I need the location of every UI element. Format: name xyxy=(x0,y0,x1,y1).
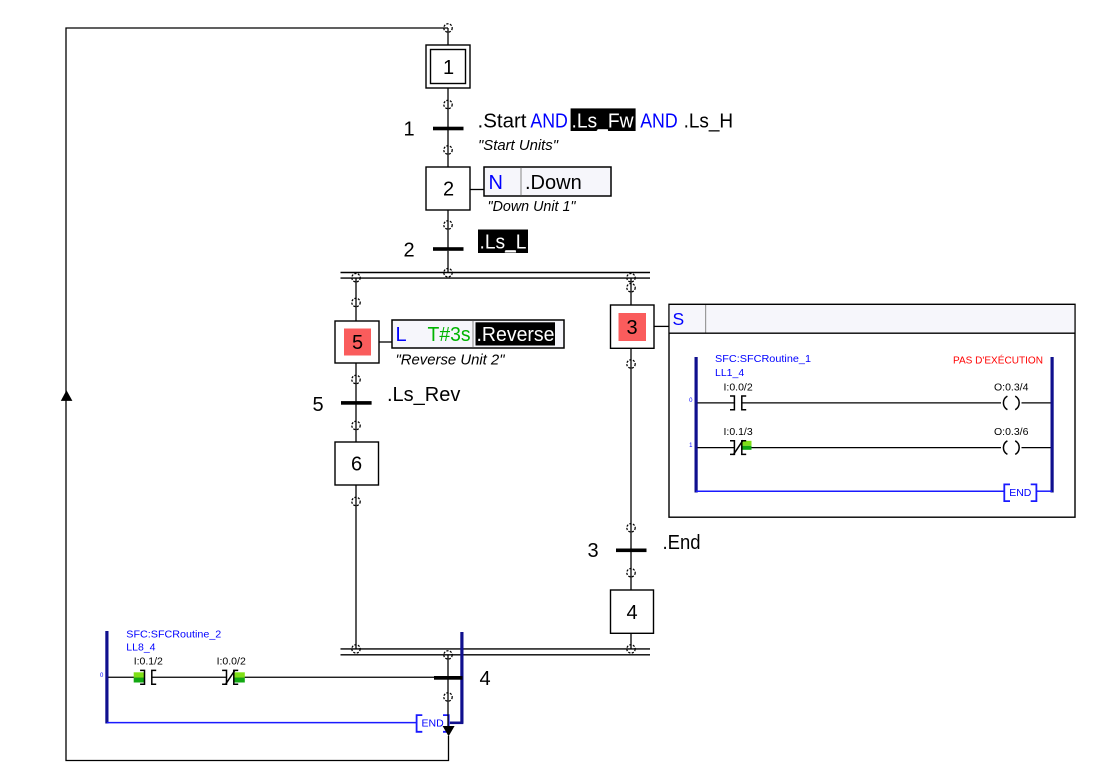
ladder1 right power rail xyxy=(1051,357,1054,493)
node above step 2 xyxy=(444,146,452,154)
svg-text:SFC:SFCRoutine_2: SFC:SFCRoutine_2 xyxy=(126,628,221,640)
transition T1 condition text xyxy=(478,108,734,132)
wire divergence to step3 xyxy=(630,278,632,305)
svg-text:2: 2 xyxy=(404,240,415,262)
svg-text:.Ls_Rev: .Ls_Rev xyxy=(387,384,460,406)
node convergence center xyxy=(444,651,452,659)
svg-text:6: 6 xyxy=(351,454,362,476)
ladder1 coil O:0.3/6 xyxy=(1003,441,1019,455)
svg-text:1: 1 xyxy=(443,57,454,79)
node above transition 1 xyxy=(444,100,452,108)
ladder1 coil O:0.3/4 xyxy=(1003,396,1019,410)
svg-text:"Start Units": "Start Units" xyxy=(478,137,559,154)
step S2 xyxy=(426,167,470,210)
wire step5 to transition5 xyxy=(355,363,357,402)
action block N .Down xyxy=(484,167,611,196)
svg-text:.Down: .Down xyxy=(525,172,582,194)
node below step 6 xyxy=(352,497,360,505)
svg-text:1: 1 xyxy=(404,119,415,141)
ladder1 left power rail xyxy=(695,357,698,493)
arrow down to loop return xyxy=(443,726,455,736)
wire transition4 down to arrow xyxy=(447,680,449,729)
wire loop-return left/top/bottom xyxy=(66,28,449,761)
action block S (ladder subroutine preview) xyxy=(669,304,1075,517)
wire step3 to transition3 xyxy=(630,349,632,549)
wire transition1 to step2 xyxy=(447,130,449,167)
node above step 6 xyxy=(352,421,360,429)
transition T4 bar xyxy=(434,676,463,680)
transition T3 bar xyxy=(616,549,647,553)
node divergence right xyxy=(627,274,635,282)
ladder1 rung 0 wire xyxy=(698,402,1051,404)
simultaneous convergence double lines xyxy=(341,649,651,655)
node at loop top xyxy=(444,24,452,32)
ladder1 END bracket xyxy=(1004,484,1036,501)
wire step6 to convergence xyxy=(355,485,357,649)
node above step 5 xyxy=(352,298,360,306)
svg-text:AND: AND xyxy=(640,111,678,133)
svg-text:5: 5 xyxy=(313,394,324,416)
wire step1 to transition1 xyxy=(447,88,449,127)
transition T2 condition .Ls_L highlighted xyxy=(478,230,528,254)
svg-text:END: END xyxy=(1009,487,1032,499)
transition T1 bar xyxy=(433,127,464,131)
ladder2 end rung wire xyxy=(107,722,463,724)
svg-text:5: 5 xyxy=(352,332,363,354)
svg-text:I:0.1/2: I:0.1/2 xyxy=(134,655,163,667)
svg-text:L: L xyxy=(396,324,407,346)
svg-text:2: 2 xyxy=(443,179,454,201)
wire transition2 to divergence xyxy=(447,251,449,273)
ladder2 contact I:0.1/2 highlight xyxy=(134,672,145,682)
ladder2 END bracket xyxy=(417,715,449,732)
svg-text:.Start: .Start xyxy=(478,111,527,133)
ladder1 contact I:0.1/3 highlight xyxy=(741,441,751,450)
wire step4 to convergence xyxy=(630,634,632,650)
svg-text:3: 3 xyxy=(588,540,599,562)
node divergence left xyxy=(352,274,360,282)
wire convergence to transition4 xyxy=(447,655,449,677)
node above transition 5 xyxy=(352,375,360,383)
node above step 4 xyxy=(627,569,635,577)
ladder2 left power rail xyxy=(105,631,108,724)
svg-text:T#3s: T#3s xyxy=(428,324,471,346)
node convergence right xyxy=(627,645,635,653)
svg-text:PAS D'EXÉCUTION: PAS D'EXÉCUTION xyxy=(953,354,1043,367)
node above transition 2 xyxy=(444,221,452,229)
svg-text:I:0.1/3: I:0.1/3 xyxy=(724,426,753,438)
step S1 (initial, double border) xyxy=(426,45,470,88)
ladder2 rung 0 wire xyxy=(108,676,460,678)
action block L T#3s .Reverse xyxy=(392,320,564,348)
svg-text:.Ls_L: .Ls_L xyxy=(480,232,527,254)
svg-text:AND: AND xyxy=(530,111,568,133)
svg-text:S: S xyxy=(673,309,685,329)
svg-text:3: 3 xyxy=(626,317,637,339)
svg-text:.Reverse: .Reverse xyxy=(477,324,555,346)
svg-text:SFC:SFCRoutine_1: SFC:SFCRoutine_1 xyxy=(715,353,811,365)
svg-text:.End: .End xyxy=(663,532,701,554)
wire transition3 to step4 xyxy=(630,552,632,590)
ladder1 contact I:0.1/3 (NC) xyxy=(730,440,746,455)
ladder2 contact I:0.1/2 (NO) xyxy=(140,670,156,684)
connector step5 to action block xyxy=(379,341,392,343)
svg-text:N: N xyxy=(489,172,503,194)
step S4 xyxy=(611,590,654,633)
transition T2 bar xyxy=(433,247,464,251)
ladder1 rung 1 wire xyxy=(698,447,1051,449)
svg-text:0: 0 xyxy=(100,673,104,679)
node divergence center xyxy=(444,269,452,277)
svg-text:I:0.0/2: I:0.0/2 xyxy=(217,655,246,667)
svg-text:"Reverse Unit 2": "Reverse Unit 2" xyxy=(396,352,506,369)
svg-text:O:0.3/6: O:0.3/6 xyxy=(994,426,1029,438)
connector step2 to action block xyxy=(470,189,484,191)
node below transition 4 xyxy=(444,693,452,701)
node above step 3 xyxy=(627,284,635,292)
node below step 3 xyxy=(627,360,635,368)
connector step3 to S action block xyxy=(654,325,669,327)
svg-text:I:0.0/2: I:0.0/2 xyxy=(724,381,753,393)
simultaneous divergence double lines xyxy=(341,273,651,279)
ladder1 contact I:0.0/2 (NO) xyxy=(730,396,746,410)
node convergence left xyxy=(352,645,360,653)
ladder2 right power rail xyxy=(460,632,463,724)
wire step2 to transition2 xyxy=(447,210,449,248)
step S6 xyxy=(335,442,379,485)
wire divergence to step5 xyxy=(355,278,357,321)
ladder1 end rung wire xyxy=(696,490,1052,492)
svg-text:LL8_4: LL8_4 xyxy=(126,642,155,654)
ladder2 contact I:0.0/2 (NC) xyxy=(222,670,238,685)
step S3 (active, red) xyxy=(611,305,655,348)
ladder2 contact I:0.0/2 highlight xyxy=(234,672,245,682)
svg-text:4: 4 xyxy=(626,602,637,624)
transition T5 bar xyxy=(341,401,372,405)
svg-text:O:0.3/4: O:0.3/4 xyxy=(994,381,1029,393)
svg-text:.Ls_H: .Ls_H xyxy=(684,111,734,133)
wire top drop into step 1 xyxy=(447,28,449,45)
svg-text:"Down Unit 1": "Down Unit 1" xyxy=(488,198,577,215)
wire transition5 to step6 xyxy=(355,405,357,443)
svg-text:END: END xyxy=(422,718,445,730)
svg-text:4: 4 xyxy=(480,668,491,690)
node above transition 3 xyxy=(627,524,635,532)
svg-text:LL1_4: LL1_4 xyxy=(715,367,744,379)
arrow up on return wire xyxy=(61,390,73,401)
step S5 (active, red) xyxy=(335,321,379,363)
